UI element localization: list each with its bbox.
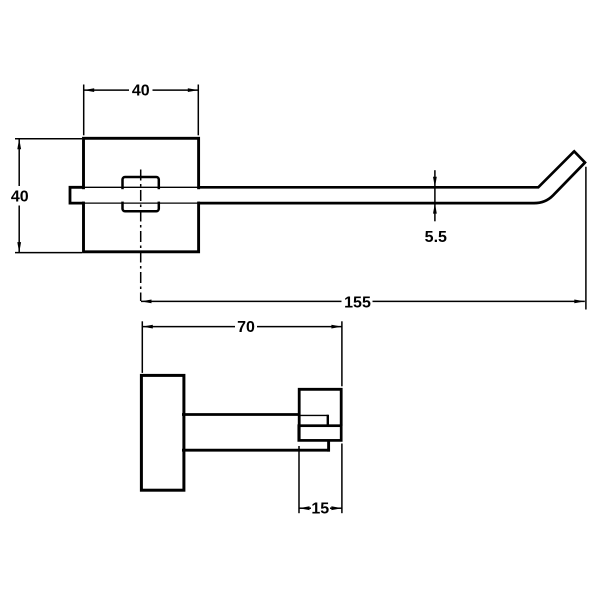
svg-text:15: 15 — [311, 501, 329, 518]
svg-text:70: 70 — [237, 319, 255, 336]
svg-text:155: 155 — [344, 295, 371, 312]
svg-text:40: 40 — [11, 188, 29, 205]
svg-text:5.5: 5.5 — [425, 229, 447, 246]
svg-text:40: 40 — [132, 83, 150, 100]
